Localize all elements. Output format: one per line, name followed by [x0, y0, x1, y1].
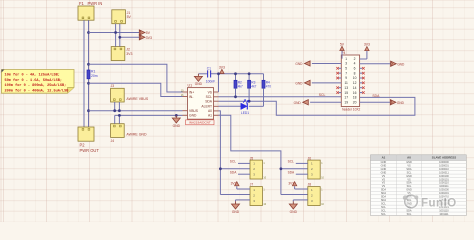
svg-text:GND: GND [397, 101, 405, 105]
wire R2 top [235, 74, 237, 81]
svg-text:LED1: LED1 [241, 111, 249, 115]
svg-text:SDA: SDA [288, 170, 295, 174]
connector P2 PWR OUT [78, 127, 94, 141]
svg-text:IN+: IN+ [189, 90, 194, 94]
junction GND symbol tap [175, 114, 178, 117]
svg-text:1: 1 [345, 57, 347, 61]
svg-text:1: 1 [321, 162, 323, 165]
watermark FunIO logo [403, 195, 457, 209]
svg-text:1: 1 [321, 188, 323, 191]
svg-text:J8: J8 [308, 183, 312, 187]
svg-text:3V3: 3V3 [364, 43, 370, 47]
ground flag P4 pin3 [305, 61, 311, 66]
wire J4 pin1 rise [114, 115, 116, 123]
connector F1 PWR IN [78, 6, 94, 20]
svg-text:8: 8 [354, 71, 356, 75]
svg-text:4: 4 [354, 62, 356, 66]
svg-text:A0: A0 [407, 156, 411, 160]
svg-text:5V: 5V [146, 31, 151, 35]
svg-text:F1: F1 [79, 1, 85, 6]
wire J8 pin1 3V3 stub [295, 188, 308, 190]
svg-text:12: 12 [353, 81, 357, 85]
wire IN+ to U1 [89, 64, 183, 92]
svg-text:20: 20 [353, 100, 357, 104]
svg-text:SCL: SCL [381, 213, 386, 216]
wire J5 pin1 SCL stub [238, 162, 250, 164]
P4 pin numbers [344, 57, 356, 105]
svg-text:INA219AIDCNT: INA219AIDCNT [189, 121, 211, 125]
junction A0 J5 tap [219, 167, 222, 170]
svg-text:1: 1 [263, 162, 265, 165]
svg-text:20m: 20m [91, 74, 98, 78]
wire J7 pin1 3V3 stub [237, 188, 250, 190]
wire R4 bottom to ALERT [263, 88, 265, 106]
wire J3 pin2 drop [118, 102, 120, 111]
power flag 5V at P4 [340, 46, 344, 50]
svg-text:1: 1 [263, 188, 265, 191]
svg-text:SCL: SCL [288, 160, 294, 164]
wire J7 pin3 GND stub [236, 199, 251, 201]
ground GND near U1 [172, 115, 180, 127]
svg-text:J7: J7 [250, 183, 254, 187]
power flag 3V3 at P4 [365, 47, 369, 51]
U1 pin names [181, 89, 213, 117]
wire J3 pin1 drop [114, 102, 116, 111]
jumper J3 AWIRE VBUS [111, 88, 125, 102]
wire A0 to J7 pin2 [220, 194, 250, 196]
svg-text:17: 17 [344, 96, 348, 100]
svg-text:VBUS: VBUS [189, 109, 199, 113]
junction R2 top [234, 72, 237, 75]
svg-text:GND: GND [195, 82, 203, 86]
capacitor C1 plates [208, 70, 211, 77]
junction J3 pin1 [113, 109, 116, 112]
svg-text:10: 10 [321, 176, 324, 179]
junction R2 on SCL [234, 95, 237, 98]
jumper J4 AWIRE GND [111, 124, 125, 138]
wire 3V3 rail over resistors [211, 73, 264, 75]
svg-text:3V3: 3V3 [146, 36, 152, 40]
wire ALERT to LED1 anode [219, 105, 241, 107]
svg-text:IN-: IN- [189, 95, 193, 99]
resistor R3 body [248, 80, 251, 88]
power flag 5V [139, 30, 145, 35]
jumper J6 body [308, 160, 320, 179]
svg-text:5V: 5V [127, 15, 132, 19]
svg-text:GND: GND [290, 210, 298, 214]
op-amp U1 INA219 body [188, 88, 214, 120]
svg-text:A0: A0 [208, 109, 212, 113]
svg-text:5V: 5V [340, 42, 345, 46]
junction 5V tap [87, 31, 90, 34]
no-connect marks P4 left [339, 68, 342, 92]
svg-text:1001111: 1001111 [439, 213, 449, 216]
J8 pin numbers [311, 188, 325, 206]
wire 5V rail [89, 32, 140, 34]
junction VBUS tap [87, 109, 90, 112]
wire 3V3 rail [120, 36, 140, 38]
wire 3V3 stub P4 pin2 [360, 58, 367, 60]
wire 5V stem P4 pin1 [341, 51, 343, 59]
wire J1 pin2 to J2 pin2 vertical [119, 24, 121, 47]
wire J4 pin2 rise [118, 115, 120, 123]
svg-text:GND: GND [397, 62, 405, 66]
svg-text:3V3: 3V3 [219, 65, 225, 69]
svg-text:PWR IN: PWR IN [88, 1, 103, 6]
power flag 3V3 at J8 [292, 182, 296, 186]
wire J7 GND drop [235, 200, 237, 202]
svg-text:GND: GND [295, 81, 303, 85]
svg-text:7: 7 [345, 71, 347, 75]
note box shunt values [2, 70, 75, 94]
svg-text:GND: GND [189, 114, 197, 118]
resistor R4 body [262, 80, 265, 88]
junction J4 pin2 [118, 114, 121, 117]
wire R3 top [248, 74, 250, 81]
wire A1 to J6 pin2 [281, 168, 308, 170]
junction J1 pin2 on 3V3 rail [118, 36, 121, 39]
junction R3 top [248, 72, 251, 75]
junction VS on 3V3 rail [217, 72, 220, 75]
wire R3 bottom to SDA [248, 88, 250, 101]
wire P4 pin4 to GND [360, 63, 391, 65]
power flag 3V3 [139, 35, 145, 40]
table slave address [371, 155, 467, 216]
svg-text:PWR OUT: PWR OUT [80, 148, 100, 153]
svg-text:4k7: 4k7 [238, 84, 243, 88]
jumper J1 5V select [112, 10, 126, 24]
svg-text:J5: J5 [250, 156, 254, 160]
wire P4 pin20 to GND [360, 101, 391, 103]
svg-text:J4: J4 [111, 139, 115, 143]
svg-text:A1: A1 [382, 156, 386, 160]
ground flag P4 pin19 [303, 100, 309, 105]
svg-text:3V3: 3V3 [288, 182, 294, 186]
J7 pin numbers [253, 188, 267, 206]
svg-text:A1: A1 [208, 114, 212, 118]
LED LED1 [241, 100, 249, 110]
svg-text:2: 2 [354, 57, 356, 61]
svg-text:GND: GND [232, 210, 240, 214]
svg-text:10: 10 [321, 203, 324, 206]
svg-text:50m for 0 - 1.6A, 50uA/LSB;: 50m for 0 - 1.6A, 50uA/LSB; [5, 78, 62, 83]
svg-text:J6: J6 [308, 156, 312, 160]
wire P4 pin19 to GND [310, 101, 341, 103]
svg-text:SDA: SDA [205, 100, 213, 104]
wire J7 3V3 riser [236, 186, 238, 189]
svg-text:10: 10 [353, 76, 357, 80]
junction A1 J6 tap [280, 167, 283, 170]
svg-text:FunIO: FunIO [421, 198, 457, 210]
svg-text:P2: P2 [80, 143, 86, 148]
svg-text:3V3: 3V3 [231, 182, 237, 186]
svg-text:13: 13 [344, 86, 348, 90]
wire R2 bottom to SCL [235, 88, 237, 97]
wire J8 GND drop [292, 200, 294, 202]
wire J6 pin3 SDA stub [296, 173, 308, 175]
ground at J8 [289, 201, 297, 213]
svg-text:200m for 0 - 400mA, 12.5uA/LSB: 200m for 0 - 400mA, 12.5uA/LSB [5, 88, 70, 93]
wire IN- to U1 [89, 83, 183, 96]
junction IN- tap [87, 82, 90, 85]
svg-text:18: 18 [353, 96, 357, 100]
wire J1 pin1 to J2 pin1 vertical [115, 24, 117, 47]
svg-text:14: 14 [353, 86, 357, 90]
wire SCL from U1 to P4 [219, 96, 342, 98]
resistor R1 shunt body [87, 70, 90, 79]
wire P4 pin3 to GND [312, 62, 341, 64]
svg-text:3: 3 [345, 62, 347, 66]
svg-text:SCL: SCL [319, 93, 326, 97]
power flag 3V3 arrow [220, 69, 224, 73]
power flag 3V3 at J7 [235, 182, 239, 186]
wire GND rail to U1 [115, 114, 183, 116]
wire 3V3 stem P4 [366, 51, 368, 59]
wire J8 pin3 GND stub [293, 199, 308, 201]
text U1 value INA219AIDCNT [186, 120, 214, 125]
svg-text:10m for 0 - 4A, 125uA/LSB;: 10m for 0 - 4A, 125uA/LSB; [5, 73, 60, 78]
junction J3 pin2 [118, 109, 121, 112]
svg-text:J2: J2 [126, 48, 130, 52]
ground at C1 [194, 74, 202, 86]
svg-text:SLAVE ADDRESS: SLAVE ADDRESS [432, 156, 456, 160]
svg-text:100m for 0 - 800mA, 25uA/LSB;: 100m for 0 - 800mA, 25uA/LSB; [5, 83, 67, 88]
junction IN+ tap [87, 63, 90, 66]
no-connect X symbols P4 right [362, 67, 365, 94]
svg-text:AWIRE VBUS: AWIRE VBUS [126, 97, 149, 101]
svg-text:GND: GND [173, 124, 181, 128]
svg-text:6: 6 [354, 67, 356, 71]
wire VBUS rail to U1 [89, 110, 183, 112]
svg-text:C1: C1 [207, 66, 211, 70]
wire PWR left from F1 to P2 [83, 20, 85, 127]
junction R3 on SDA [248, 100, 251, 103]
svg-text:GND: GND [295, 62, 303, 66]
svg-text:SDA: SDA [230, 170, 237, 174]
wire C1 left [198, 73, 207, 75]
svg-text:AWIRE GND: AWIRE GND [126, 133, 147, 137]
connector P4 header body [341, 55, 359, 107]
wire J5 pin3 SDA stub [238, 173, 250, 175]
junction J1 pin1 on 5V rail [114, 31, 117, 34]
J6 pin numbers [311, 162, 325, 180]
U1 pin stubs [183, 92, 219, 115]
no-connect marks P4 right [360, 68, 363, 92]
svg-text:header 10X2: header 10X2 [342, 108, 360, 112]
wire A1 to J8 pin2 [281, 194, 308, 196]
svg-text:11: 11 [344, 81, 348, 85]
svg-text:SCL: SCL [206, 95, 213, 99]
wire PWR right upper segment [88, 20, 90, 70]
J5 pin numbers [253, 162, 267, 180]
svg-text:J1: J1 [127, 11, 131, 15]
svg-text:19: 19 [344, 100, 348, 104]
jumper J5 body [250, 160, 262, 179]
wire A0 descent [219, 111, 221, 195]
svg-text:100nF: 100nF [206, 80, 215, 84]
svg-text:4k7: 4k7 [251, 84, 256, 88]
resistor R2 body [234, 80, 237, 88]
wire P4 pin11 to GND [312, 82, 341, 84]
ground flag P4 pin4 [391, 61, 397, 66]
svg-text:GND: GND [294, 101, 302, 105]
svg-text:U1: U1 [188, 84, 193, 88]
svg-text:SDA: SDA [372, 94, 380, 98]
wire PWR right lower segment [88, 79, 90, 127]
jumper J2 3V3 select [111, 47, 125, 61]
svg-text:SCL: SCL [230, 160, 236, 164]
svg-text:SCL: SCL [407, 213, 412, 216]
ground at J7 [232, 201, 240, 213]
svg-text:16: 16 [353, 91, 357, 95]
wire J6 pin1 SCL stub [296, 162, 308, 164]
svg-text:15: 15 [344, 91, 348, 95]
svg-text:5: 5 [345, 67, 347, 71]
no-connect X symbols P4 left [336, 67, 339, 94]
ground flag P4 pin20 [390, 100, 396, 105]
svg-text:3V3: 3V3 [126, 52, 132, 56]
wire R4 top [263, 74, 265, 81]
svg-text:10: 10 [263, 203, 266, 206]
svg-text:ALERT: ALERT [201, 105, 212, 109]
wire A0 to J5 pin2 [220, 168, 250, 170]
wire LED1 cathode to R4 [249, 105, 264, 107]
svg-text:470: 470 [266, 84, 272, 88]
svg-text:J3: J3 [111, 84, 115, 88]
ground flag P4 pin11 [305, 80, 311, 85]
wire SDA loop U1 to P4 pin18 [219, 97, 415, 115]
jumper J7 body [250, 187, 262, 206]
svg-text:10: 10 [263, 176, 266, 179]
jumper J8 body [308, 187, 320, 206]
wire J8 3V3 riser [294, 186, 296, 189]
wire A1 descent [219, 115, 281, 194]
svg-text:9: 9 [345, 76, 347, 80]
wire VS riser [218, 74, 220, 92]
